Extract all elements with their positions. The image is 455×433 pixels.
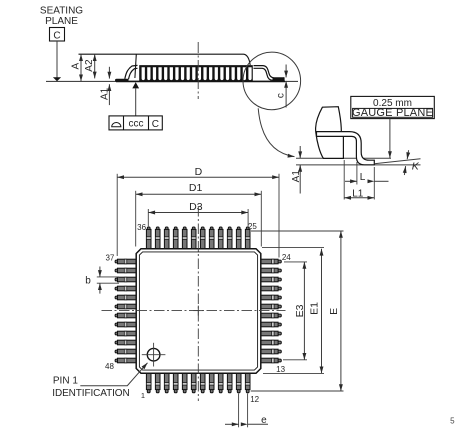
dimension A1 (side view): [108, 67, 110, 79]
side view: right lead step (in detail circle): [254, 66, 285, 78]
pin 1 identification circle: [147, 348, 160, 361]
top view: left lead column (pins 37..48): [115, 259, 137, 363]
K sloped line: [375, 159, 421, 164]
svg-text:E: E: [328, 308, 340, 315]
gauge plane leader arrow: [389, 119, 391, 158]
svg-text:D1: D1: [189, 182, 203, 194]
side view: left gull-wing lead: [115, 79, 128, 82]
gauge plane callout box: [351, 96, 435, 118]
svg-text:1: 1: [141, 391, 145, 400]
svg-text:12: 12: [250, 395, 259, 404]
svg-text:25: 25: [248, 222, 257, 231]
svg-text:b: b: [85, 276, 91, 287]
flatness symbol: [112, 123, 121, 127]
svg-text:E1: E1: [308, 302, 320, 315]
side view: vertical centerline: [197, 42, 199, 99]
dimension E3: [284, 261, 307, 263]
svg-text:c: c: [276, 93, 287, 98]
svg-text:L1: L1: [352, 188, 364, 199]
detail circle: [243, 52, 301, 110]
dimension E1: [262, 247, 324, 249]
dimension b: [97, 276, 119, 278]
svg-text:K: K: [412, 160, 420, 172]
top view: bottom lead row (pins 1..12): [146, 372, 250, 392]
ccc leader triangle: [132, 82, 139, 88]
datum leader line and filled triangle: [56, 41, 58, 78]
leader curve from detail circle to lead detail view: [258, 108, 294, 156]
dimension A: [80, 54, 82, 81]
dimension A2: [94, 54, 96, 78]
svg-text:13: 13: [276, 365, 285, 374]
svg-text:A: A: [70, 63, 81, 70]
svg-text:D: D: [195, 166, 203, 178]
pin 1 leader line: [80, 363, 147, 386]
svg-text:e: e: [261, 415, 267, 426]
svg-text:36: 36: [137, 223, 146, 232]
svg-text:37: 37: [105, 254, 114, 263]
dimension D3: [147, 209, 149, 226]
svg-text:GAUGE PLANE: GAUGE PLANE: [352, 107, 433, 119]
svg-text:C: C: [152, 119, 159, 130]
seating plane line (detail): [296, 164, 421, 166]
top view: top lead row (pins 36..25): [146, 227, 250, 250]
svg-text:E3: E3: [294, 304, 306, 317]
svg-text:A1: A1: [291, 170, 302, 183]
svg-text:ccc: ccc: [129, 119, 144, 130]
dimension K arrows and label: [407, 150, 408, 159]
dimension c: [285, 65, 287, 78]
side view: body left edge: [135, 54, 136, 78]
top view: package body inner outline: [139, 252, 257, 370]
gauge plane line: [296, 157, 391, 159]
svg-text:IDENTIFICATION: IDENTIFICATION: [52, 388, 129, 399]
svg-text:A2: A2: [84, 59, 95, 72]
top view: dashed horizontal centerline: [102, 310, 286, 312]
dimension L1: [343, 160, 345, 200]
top view: centerline cross at body center: [193, 310, 203, 312]
svg-text:C: C: [53, 30, 60, 41]
svg-text:D3: D3: [189, 201, 203, 213]
svg-text:A1: A1: [100, 87, 111, 100]
svg-text:5: 5: [450, 417, 455, 426]
side view: seating plane line: [46, 80, 298, 82]
svg-text:48: 48: [105, 362, 114, 371]
dimension D: [116, 174, 118, 256]
detail: gull-wing lead cross-section: [317, 132, 375, 165]
svg-text:PIN 1: PIN 1: [53, 376, 78, 387]
top view: package body outer outline: [136, 249, 261, 374]
side view: package top line with extension: [79, 54, 251, 65]
detail: body end piece: [316, 107, 344, 159]
svg-text:SEATING: SEATING: [40, 6, 83, 17]
dimension D1: [135, 191, 137, 247]
side view: seating plane thick segment under package: [116, 80, 285, 82]
dimension L: [356, 162, 358, 185]
dimension e: [238, 394, 240, 428]
side view: lead rib block: [139, 65, 253, 82]
svg-text:L: L: [360, 172, 366, 183]
svg-text:PLANE: PLANE: [45, 16, 78, 27]
top view: dashed vertical centerline: [197, 206, 199, 401]
svg-text:24: 24: [282, 253, 291, 262]
dimension E: [251, 230, 344, 232]
dimension A1 (detail view): [299, 146, 301, 158]
ccc feature control frame: [109, 116, 162, 130]
datum C box: [50, 28, 65, 42]
top view: right lead column (pins 24..13): [260, 259, 281, 363]
